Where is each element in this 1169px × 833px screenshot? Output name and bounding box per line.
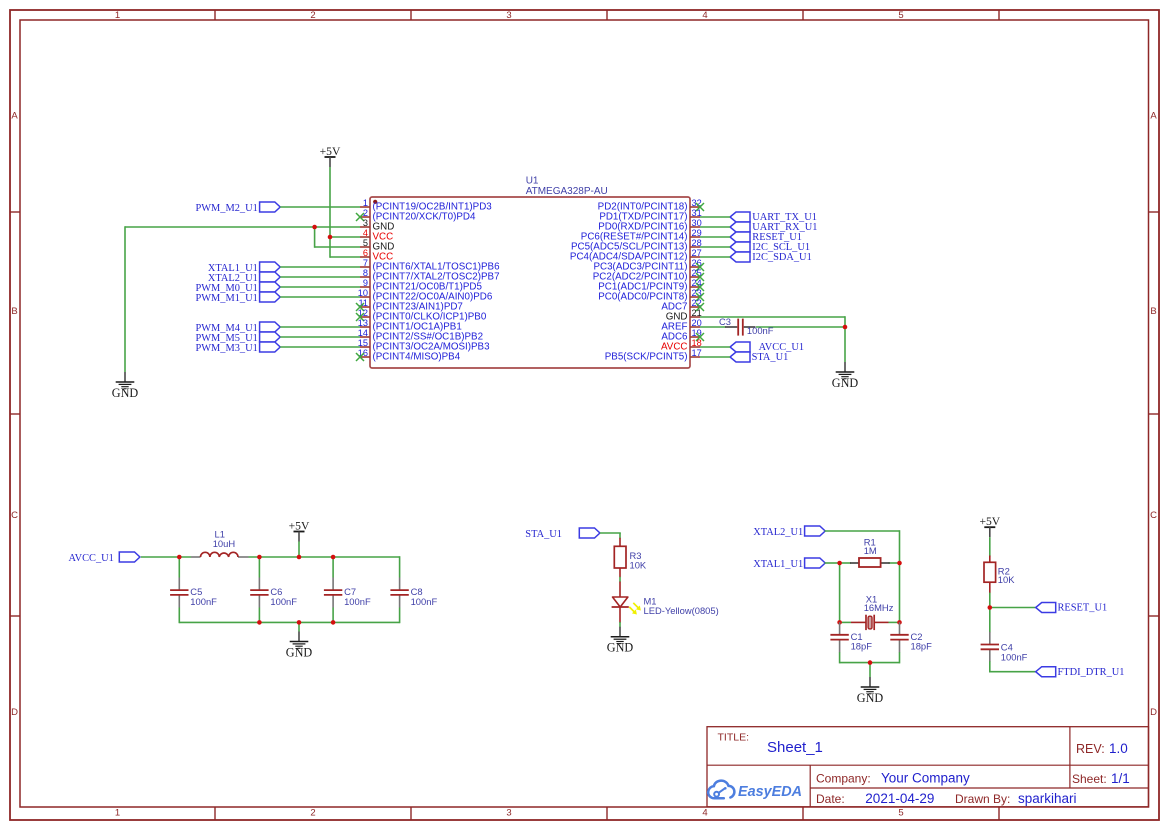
port PWM_M1_U1 — [195, 292, 280, 304]
ground crystal — [857, 677, 884, 705]
wire rail bottom — [179, 621, 399, 623]
port XTAL1_U1 — [208, 262, 280, 274]
wire C5 bottom — [178, 608, 180, 624]
pin 9 (PCINT21/OC0B/T1)PD5 — [360, 278, 482, 293]
port PWM_M0_U1 — [195, 282, 280, 294]
junction VCC — [328, 235, 333, 240]
port RESET_U1 — [730, 232, 802, 243]
svg-text:Date:: Date: — [816, 792, 845, 806]
pin 20 AREF — [661, 318, 701, 333]
port AVCC_U1 — [730, 342, 804, 353]
port UART_TX_U1 — [730, 212, 817, 223]
svg-text:10K: 10K — [630, 560, 647, 571]
svg-text:REV:: REV: — [1076, 742, 1105, 756]
wire pin17 STA — [700, 356, 730, 358]
wire pin1 PWM_M2 — [280, 206, 360, 208]
svg-text:1.0: 1.0 — [1109, 741, 1128, 756]
svg-text:FTDI_DTR_U1: FTDI_DTR_U1 — [1058, 667, 1125, 678]
wire pin20 b — [756, 326, 845, 328]
wire node to C4 — [989, 608, 991, 633]
svg-text:4: 4 — [702, 808, 707, 819]
capacitor C5 100nF — [170, 578, 217, 608]
svg-text:2: 2 — [310, 10, 315, 21]
wire VCC pin4 — [330, 236, 360, 238]
svg-text:5: 5 — [898, 10, 903, 21]
port I2C_SDA_U1 — [730, 252, 812, 263]
ground filter — [286, 632, 313, 660]
svg-text:STA_U1: STA_U1 — [752, 352, 789, 363]
svg-text:1: 1 — [115, 10, 120, 21]
wire STA corner — [619, 533, 621, 538]
svg-text:B: B — [1150, 306, 1156, 317]
svg-text:5: 5 — [898, 808, 903, 819]
wire xtal gnd — [869, 663, 871, 677]
wire RESET — [990, 607, 1036, 609]
wire +5V vertical — [329, 167, 331, 258]
ground right of chip — [832, 362, 859, 390]
wire C5 top — [178, 556, 180, 577]
wire LED to GND — [619, 622, 621, 627]
capacitor C2 18pF — [890, 622, 932, 652]
port XTAL2_U1 flag — [753, 526, 825, 538]
ground left — [112, 372, 139, 400]
svg-text:PWM_M3_U1: PWM_M3_U1 — [195, 343, 257, 354]
svg-text:GND: GND — [607, 641, 634, 655]
svg-text:100nF: 100nF — [270, 596, 297, 607]
pin 5 GND — [360, 238, 394, 253]
svg-text:18pF: 18pF — [911, 641, 933, 652]
svg-text:100nF: 100nF — [747, 325, 774, 336]
svg-text:6: 6 — [363, 248, 368, 258]
svg-text:STA_U1: STA_U1 — [525, 529, 562, 540]
pin 11 (PCINT23/AIN1)PD7 — [356, 298, 463, 313]
wire R1 left — [840, 562, 851, 564]
wire C7 top — [332, 557, 334, 578]
wire pin8 XTAL2 — [280, 276, 360, 278]
capacitor C6 100nF — [250, 578, 297, 608]
svg-text:4: 4 — [702, 10, 707, 21]
wire GND pin5 drop — [314, 227, 316, 248]
svg-text:Drawn By:: Drawn By: — [955, 792, 1010, 806]
svg-text:GND: GND — [832, 376, 859, 390]
svg-text:100nF: 100nF — [411, 596, 438, 607]
svg-text:2: 2 — [310, 808, 315, 819]
wire pin18 AVCC — [700, 346, 730, 348]
junction C7 bottom — [331, 620, 336, 625]
svg-text:GND: GND — [112, 386, 139, 400]
wire VCC pin6 — [330, 256, 360, 258]
EasyEDA logo — [708, 781, 802, 801]
wire rail top — [249, 556, 400, 558]
wire C6 top — [258, 557, 260, 578]
wire pin28 — [700, 246, 730, 248]
junction C6 bottom — [257, 620, 262, 625]
pin 12 (PCINT0/CLKO/ICP1)PB0 — [356, 308, 487, 323]
port XTAL2_U1 — [208, 272, 280, 284]
svg-text:18pF: 18pF — [851, 641, 873, 652]
pin 18 AVCC — [661, 338, 702, 353]
junction GND pin5 — [312, 225, 317, 230]
port PWM_M4_U1 — [195, 322, 280, 334]
pin 25 PC2(ADC2/PCINT10) — [593, 268, 704, 283]
port STA_U1 flag — [525, 528, 600, 540]
svg-text:D: D — [1150, 707, 1157, 718]
wire pin29 — [700, 236, 730, 238]
svg-text:1M: 1M — [864, 545, 877, 556]
svg-text:10K: 10K — [998, 574, 1015, 585]
pin 7 (PCINT6/XTAL1/TOSC1)PB6 — [360, 258, 500, 273]
wire GND vertical — [124, 226, 126, 372]
wire pin30 — [700, 226, 730, 228]
svg-text:3: 3 — [506, 808, 511, 819]
pin 23 PC0(ADC0/PCINT8) — [598, 288, 704, 303]
pin 29 PC6(RESET#/PCINT14) — [581, 228, 702, 243]
junction AREF GND — [843, 325, 848, 330]
LED M1 LED-Yellow(0805) — [612, 582, 719, 623]
pin 6 VCC — [360, 248, 393, 263]
svg-text:1/1: 1/1 — [1111, 771, 1130, 786]
svg-text:sparkihari: sparkihari — [1018, 791, 1077, 806]
junction GND rail — [297, 620, 302, 625]
wire +5V filter — [298, 542, 300, 558]
capacitor C8 100nF — [390, 578, 437, 608]
port PWM_M5_U1 — [195, 332, 280, 344]
wire C1 bottom — [839, 652, 841, 663]
junction C7 top — [331, 555, 336, 560]
wire pin7 XTAL1 — [280, 266, 360, 268]
port XTAL1_U1 flag — [753, 558, 825, 570]
svg-text:I2C_SDA_U1: I2C_SDA_U1 — [752, 252, 811, 263]
pin 8 (PCINT7/XTAL2/TOSC2)PB7 — [360, 268, 500, 283]
junction X1 right — [897, 620, 902, 625]
wire C2 bottom — [899, 652, 901, 663]
wire X1 left — [840, 621, 851, 623]
port STA_U1 chip — [730, 352, 788, 363]
junction XTAL1 R1 — [837, 561, 842, 566]
junction C5 top — [177, 555, 182, 560]
port PWM_M3_U1 — [195, 342, 280, 354]
svg-text:5: 5 — [363, 238, 368, 248]
svg-text:Company:: Company: — [816, 771, 871, 785]
svg-text:AVCC_U1: AVCC_U1 — [68, 553, 113, 564]
svg-text:C: C — [1150, 510, 1157, 521]
capacitor C3 100nF — [719, 316, 774, 336]
port AVCC_U1 flag — [68, 552, 139, 564]
svg-text:Sheet_1: Sheet_1 — [767, 739, 823, 756]
power +5V filter — [289, 520, 310, 542]
pin 22 ADC7 — [661, 298, 704, 313]
svg-text:100nF: 100nF — [1001, 651, 1028, 662]
wire XTAL1 — [825, 562, 840, 564]
wire pin21 GND — [700, 316, 845, 318]
wire GND pin5 — [315, 246, 360, 248]
wire pin27 — [700, 256, 730, 258]
inductor L1 10uH — [191, 528, 249, 557]
svg-text:100nF: 100nF — [190, 596, 217, 607]
wire XTAL2 right vert — [899, 530, 901, 622]
pin 21 GND — [666, 308, 702, 323]
pin 10 (PCINT22/OC0A/AIN0)PD6 — [358, 288, 493, 303]
port PWM_M2_U1 — [195, 202, 280, 214]
svg-text:2021-04-29: 2021-04-29 — [865, 791, 934, 806]
wire pin9 PWM_M0 — [280, 286, 360, 288]
svg-text:XTAL1_U1: XTAL1_U1 — [753, 559, 803, 570]
pin 28 PC5(ADC5/SCL/PCINT13) — [571, 238, 702, 253]
wire xtal rail — [840, 662, 900, 664]
svg-text:10uH: 10uH — [213, 538, 235, 549]
pin 2 (PCINT20/XCK/T0)PD4 — [356, 208, 476, 223]
svg-text:100nF: 100nF — [344, 596, 371, 607]
svg-text:1: 1 — [115, 808, 120, 819]
svg-text:7: 7 — [363, 258, 368, 268]
svg-text:1: 1 — [363, 198, 368, 208]
resistor R1 1M — [850, 537, 890, 567]
pin 1 (PCINT19/OC2B/INT1)PD3 — [360, 198, 492, 213]
svg-text:9: 9 — [363, 278, 368, 288]
title block — [707, 727, 1149, 807]
svg-text:4: 4 — [363, 228, 368, 238]
svg-text:C3: C3 — [719, 316, 731, 327]
svg-text:A: A — [11, 111, 18, 122]
port UART_RX_U1 — [730, 222, 817, 233]
svg-text:+5V: +5V — [979, 515, 1000, 528]
svg-text:LED-Yellow(0805): LED-Yellow(0805) — [644, 605, 719, 616]
svg-text:+5V: +5V — [320, 145, 341, 158]
svg-text:8: 8 — [363, 268, 368, 278]
pin 15 (PCINT3/OC2A/MOSI)PB3 — [358, 338, 490, 353]
pin 17 PB5(SCK/PCINT5) — [605, 348, 702, 363]
pin 24 PC1(ADC1/PCINT9) — [598, 278, 704, 293]
svg-text:XTAL2_U1: XTAL2_U1 — [753, 527, 803, 538]
pin 32 PD2(INT0/PCINT18) — [598, 198, 704, 213]
ground led — [607, 627, 634, 655]
pin 13 (PCINT1/OC1A)PB1 — [358, 318, 462, 333]
resistor R3 10K — [614, 538, 647, 577]
svg-text:EasyEDA: EasyEDA — [738, 784, 802, 800]
wire FTDI — [989, 671, 1036, 673]
wire R2 to node — [989, 593, 991, 608]
capacitor C1 18pF — [830, 622, 872, 652]
wire AVCC to L1 — [141, 556, 191, 558]
port RESET_U1 flag — [1036, 603, 1107, 614]
svg-text:GND: GND — [286, 645, 313, 659]
wire STA — [600, 532, 621, 534]
wire pin15 PWM_M3 — [280, 346, 360, 348]
svg-text:PB5(SCK/PCINT5): PB5(SCK/PCINT5) — [605, 351, 688, 362]
svg-text:PWM_M2_U1: PWM_M2_U1 — [195, 203, 257, 214]
svg-text:Your Company: Your Company — [881, 770, 970, 785]
svg-text:3: 3 — [363, 218, 368, 228]
power +5V top — [320, 145, 341, 167]
junction X1 left — [837, 620, 842, 625]
wire +5V reset — [989, 537, 991, 556]
wire XTAL2 top — [825, 530, 900, 532]
power +5V reset — [979, 515, 1000, 537]
pin 30 PD0(RXD/PCINT16) — [598, 218, 702, 233]
wire to GND right — [844, 327, 846, 362]
wire pin31 — [700, 216, 730, 218]
svg-text:Sheet:: Sheet: — [1072, 772, 1107, 786]
svg-text:(PCINT4/MISO)PB4: (PCINT4/MISO)PB4 — [373, 351, 461, 362]
wire GND filter — [298, 622, 300, 631]
svg-text:PWM_M1_U1: PWM_M1_U1 — [195, 293, 257, 304]
capacitor C4 100nF — [981, 632, 1028, 663]
resistor R2 10K — [984, 556, 1015, 594]
wire C6 bottom — [258, 608, 260, 623]
svg-text:TITLE:: TITLE: — [718, 731, 750, 743]
wire R1 right — [889, 562, 901, 564]
junction xtal gnd — [868, 660, 873, 665]
pin 27 PC4(ADC4/SDA/PCINT12) — [570, 248, 702, 263]
crystal X1 16MHz — [851, 593, 894, 630]
svg-text:16MHz: 16MHz — [864, 602, 894, 613]
port I2C_SCL_U1 — [730, 242, 810, 253]
junction C6 top — [257, 555, 262, 560]
IC U1 ATMEGA328P-AU body — [370, 176, 690, 368]
svg-text:RESET_U1: RESET_U1 — [1058, 603, 1108, 614]
svg-text:+5V: +5V — [289, 520, 310, 533]
wire pin20 a — [700, 326, 726, 328]
pin 16 (PCINT4/MISO)PB4 — [356, 348, 461, 363]
wire X1 right — [889, 621, 900, 623]
pin 19 ADC6 — [661, 328, 704, 343]
wire pin10 PWM_M1 — [280, 296, 360, 298]
pin 31 PD1(TXD/PCINT17) — [599, 208, 701, 223]
pin 14 (PCINT2/SS#/OC1B)PB2 — [358, 328, 483, 343]
junction +5V rail — [297, 555, 302, 560]
junction RESET — [988, 605, 993, 610]
svg-text:B: B — [11, 306, 17, 317]
wire pin14 PWM_M5 — [280, 336, 360, 338]
svg-text:ATMEGA328P-AU: ATMEGA328P-AU — [526, 186, 608, 197]
wire pin13 PWM_M4 — [280, 326, 360, 328]
port FTDI_DTR_U1 flag — [1036, 667, 1125, 678]
svg-text:3: 3 — [506, 10, 511, 21]
wire R3 to LED — [619, 577, 621, 582]
capacitor C7 100nF — [324, 578, 371, 608]
wire C4 down — [989, 661, 991, 671]
wire C7 bottom — [332, 608, 334, 623]
pin 26 PC3(ADC3/PCINT11) — [594, 258, 705, 273]
svg-text:D: D — [11, 707, 18, 718]
pin 4 VCC — [360, 228, 393, 243]
svg-text:GND: GND — [857, 691, 884, 705]
wire pin21 down — [844, 316, 846, 327]
wire C8 top — [399, 556, 401, 577]
svg-text:A: A — [1150, 111, 1157, 122]
junction R1 right — [897, 561, 902, 566]
svg-text:C: C — [11, 510, 18, 521]
wire C8 bottom — [399, 608, 401, 624]
wire XTAL1 left vert — [839, 562, 841, 622]
wire GND pin3 — [125, 226, 360, 228]
pin 3 GND — [360, 218, 394, 233]
